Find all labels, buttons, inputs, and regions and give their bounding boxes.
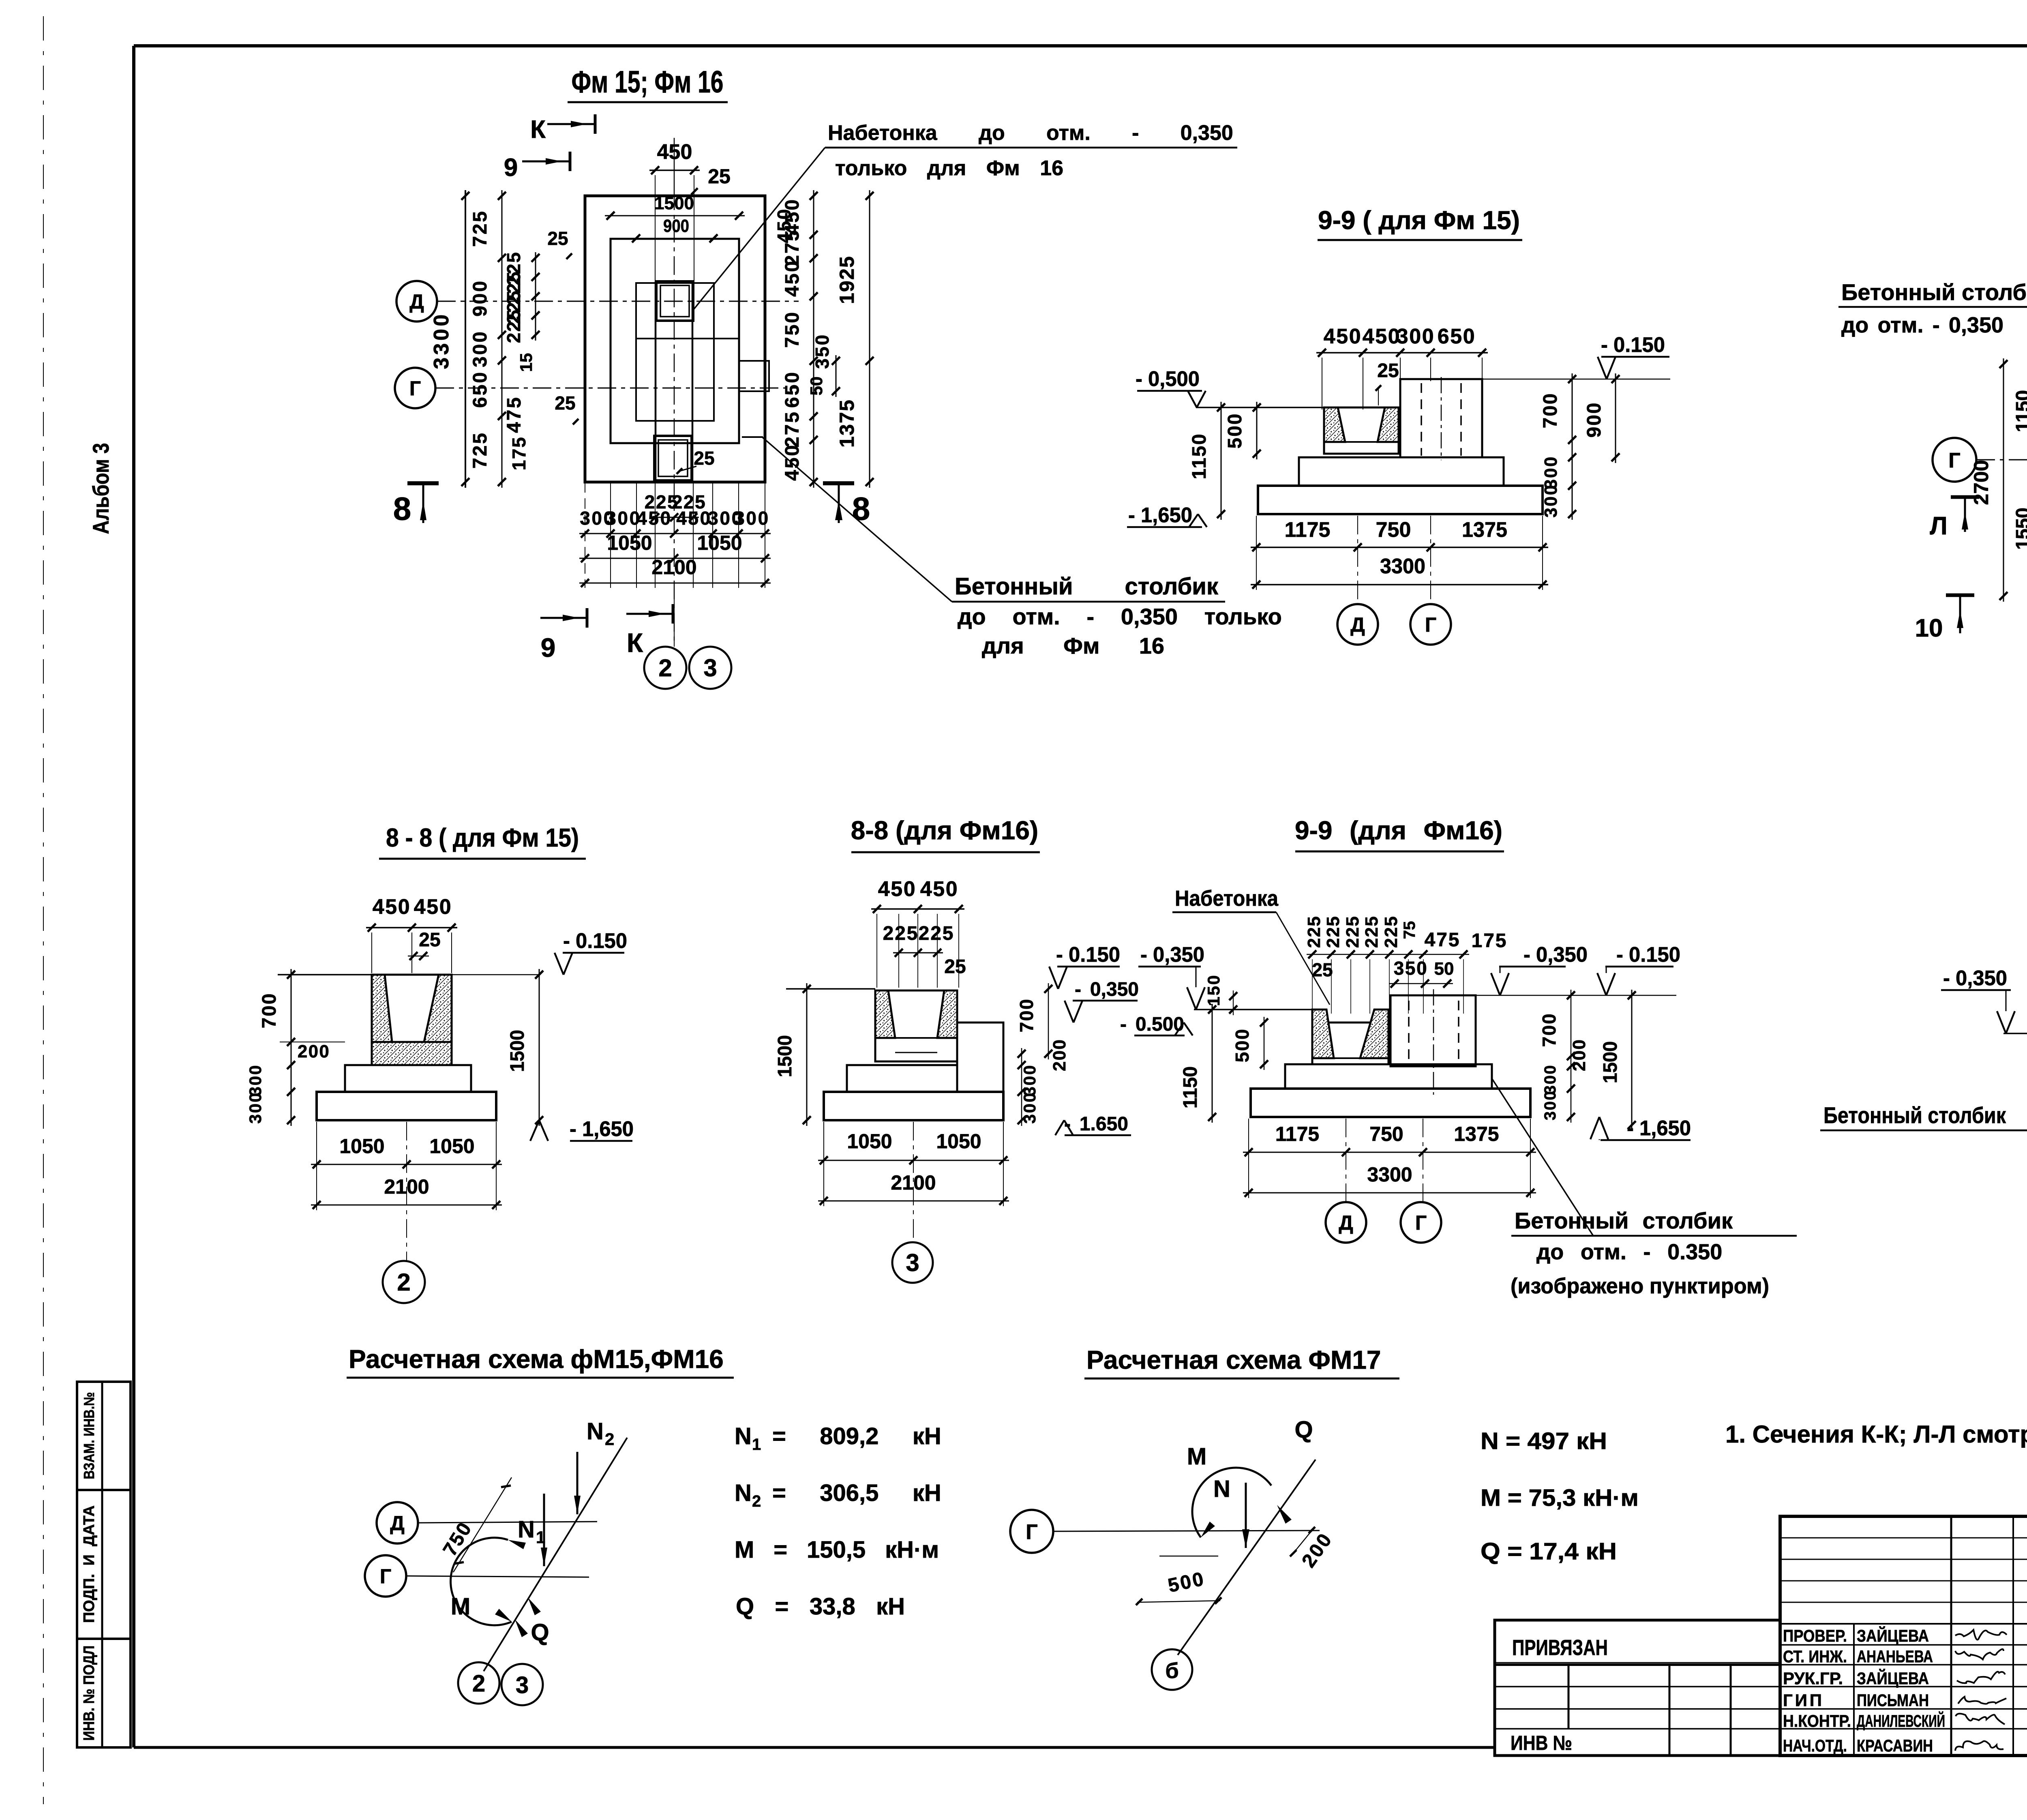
svg-text:- 1.650: - 1.650 bbox=[1064, 1113, 1128, 1135]
svg-text:450: 450 bbox=[1363, 325, 1401, 348]
svg-text:450: 450 bbox=[636, 508, 672, 529]
svg-text:Расчетная схема фМ15,ФМ16: Расчетная схема фМ15,ФМ16 bbox=[349, 1344, 724, 1374]
svg-text:2700: 2700 bbox=[1970, 460, 1993, 505]
svg-text:1. Сечения К-К; Л-Л смотри: 1. Сечения К-К; Л-Л смотри bbox=[1725, 1421, 2027, 1448]
svg-text:- 0.500: - 0.500 bbox=[1120, 1014, 1184, 1035]
svg-text:15: 15 bbox=[516, 353, 536, 372]
svg-text:1500: 1500 bbox=[507, 1030, 528, 1072]
svg-text:ДАНИЛЕВСКИЙ: ДАНИЛЕВСКИЙ bbox=[1857, 1711, 1945, 1730]
svg-text:Г: Г bbox=[1415, 1211, 1427, 1234]
svg-text:700: 700 bbox=[1540, 392, 1561, 429]
svg-text:725: 725 bbox=[469, 431, 491, 469]
svg-text:25: 25 bbox=[1312, 959, 1333, 980]
svg-text:225: 225 bbox=[1381, 915, 1401, 948]
svg-text:225: 225 bbox=[503, 309, 524, 343]
svg-text:225: 225 bbox=[1362, 915, 1382, 948]
svg-text:- 1,650: - 1,650 bbox=[570, 1117, 634, 1141]
svg-text:НАЧ.ОТД.: НАЧ.ОТД. bbox=[1783, 1736, 1847, 1755]
svg-text:- 0.150: - 0.150 bbox=[1616, 943, 1680, 967]
svg-text:300: 300 bbox=[1020, 1064, 1039, 1096]
svg-text:3300: 3300 bbox=[1367, 1163, 1412, 1186]
svg-text:1550: 1550 bbox=[2012, 508, 2027, 550]
svg-text:450: 450 bbox=[782, 259, 803, 297]
svg-text:225: 225 bbox=[1323, 915, 1343, 948]
svg-text:до отм. - 0,350: до отм. - 0,350 bbox=[1841, 313, 2003, 337]
svg-text:N: N bbox=[735, 1423, 752, 1449]
svg-text:1150: 1150 bbox=[1189, 433, 1210, 480]
svg-text:450: 450 bbox=[920, 877, 959, 901]
svg-text:1375: 1375 bbox=[1462, 518, 1507, 542]
svg-text:- 0,500: - 0,500 bbox=[1136, 367, 1200, 391]
svg-text:1050: 1050 bbox=[607, 532, 652, 554]
svg-text:ГИП: ГИП bbox=[1783, 1691, 1824, 1710]
svg-text:25: 25 bbox=[555, 392, 575, 414]
svg-text:АНАНЬЕВА: АНАНЬЕВА bbox=[1857, 1647, 1933, 1666]
svg-text:25: 25 bbox=[944, 956, 966, 978]
svg-text:Q = 17,4 кН: Q = 17,4 кН bbox=[1481, 1538, 1617, 1565]
svg-text:Альбом 3: Альбом 3 bbox=[88, 443, 114, 534]
svg-text:К: К bbox=[530, 116, 546, 144]
svg-text:175: 175 bbox=[1472, 930, 1508, 952]
svg-text:ЗАЙЦЕВА: ЗАЙЦЕВА bbox=[1857, 1626, 1929, 1645]
svg-text:750: 750 bbox=[782, 311, 803, 348]
svg-text:- 1,650: - 1,650 bbox=[1627, 1117, 1691, 1140]
svg-text:Д: Д bbox=[1350, 613, 1365, 636]
svg-text:M = 75,3 кН·м: M = 75,3 кН·м bbox=[1481, 1485, 1639, 1511]
svg-text:450: 450 bbox=[676, 508, 712, 529]
svg-text:25: 25 bbox=[419, 929, 440, 951]
svg-text:РУК.ГР.: РУК.ГР. bbox=[1783, 1669, 1843, 1688]
svg-text:КРАСАВИН: КРАСАВИН bbox=[1857, 1736, 1933, 1755]
svg-text:1: 1 bbox=[752, 1436, 761, 1453]
svg-text:для Фм 16: для Фм 16 bbox=[982, 633, 1164, 658]
svg-text:ПОДП. И ДАТА: ПОДП. И ДАТА bbox=[81, 1505, 98, 1623]
svg-text:Бетонный столбик: Бетонный столбик bbox=[1515, 1208, 1733, 1233]
svg-text:Г: Г bbox=[380, 1565, 391, 1588]
svg-text:ПРИВЯЗАН: ПРИВЯЗАН bbox=[1512, 1636, 1608, 1660]
svg-text:700: 700 bbox=[1016, 998, 1037, 1033]
svg-text:10: 10 bbox=[1915, 614, 1943, 642]
svg-text:9-9 (для Фм16): 9-9 (для Фм16) bbox=[1295, 816, 1502, 845]
svg-text:25: 25 bbox=[1377, 360, 1399, 382]
svg-text:175: 175 bbox=[508, 436, 529, 471]
svg-text:475: 475 bbox=[504, 396, 525, 433]
svg-text:1050: 1050 bbox=[936, 1130, 981, 1153]
svg-text:- 0,350: - 0,350 bbox=[1140, 943, 1204, 967]
svg-text:300: 300 bbox=[246, 1091, 265, 1123]
svg-text:450: 450 bbox=[373, 895, 411, 919]
svg-text:- 0,350: - 0,350 bbox=[1523, 943, 1588, 967]
svg-text:25: 25 bbox=[694, 448, 714, 469]
svg-text:Q: Q bbox=[1294, 1417, 1313, 1443]
svg-text:Д: Д bbox=[390, 1512, 405, 1535]
svg-text:1050: 1050 bbox=[429, 1135, 474, 1158]
svg-text:ИНВ. № ПОДЛ: ИНВ. № ПОДЛ bbox=[81, 1646, 98, 1741]
svg-text:N: N bbox=[735, 1480, 752, 1506]
svg-text:N: N bbox=[518, 1516, 535, 1543]
svg-text:700: 700 bbox=[1538, 1013, 1560, 1047]
svg-text:75: 75 bbox=[1401, 921, 1418, 939]
svg-text:900: 900 bbox=[469, 279, 491, 317]
svg-text:8: 8 bbox=[393, 491, 411, 527]
svg-text:1050: 1050 bbox=[847, 1130, 892, 1153]
svg-text:300: 300 bbox=[1541, 484, 1561, 517]
svg-text:150: 150 bbox=[1204, 974, 1223, 1006]
svg-text:- 0,350: - 0,350 bbox=[1943, 967, 2007, 990]
svg-text:- 0.150: - 0.150 bbox=[563, 929, 627, 953]
svg-text:Бетонный столбик: Бетонный столбик bbox=[1841, 279, 2027, 305]
svg-text:Л: Л bbox=[1930, 512, 1948, 540]
svg-text:1500: 1500 bbox=[774, 1035, 796, 1077]
svg-text:9: 9 bbox=[541, 632, 556, 662]
svg-text:ВЗАМ. ИНВ.№: ВЗАМ. ИНВ.№ bbox=[81, 1392, 97, 1479]
svg-text:N: N bbox=[1213, 1476, 1230, 1502]
svg-text:200: 200 bbox=[298, 1042, 330, 1061]
svg-text:750: 750 bbox=[1376, 518, 1411, 542]
svg-text:8: 8 bbox=[852, 491, 870, 527]
svg-text:275: 275 bbox=[782, 410, 803, 448]
svg-text:25: 25 bbox=[708, 165, 731, 188]
svg-text:ПИСЬМАН: ПИСЬМАН bbox=[1857, 1691, 1929, 1710]
svg-text:- 0.150: - 0.150 bbox=[1601, 333, 1665, 357]
svg-text:ПРОВЕР.: ПРОВЕР. bbox=[1783, 1626, 1847, 1645]
svg-text:б: б bbox=[1165, 1659, 1178, 1683]
svg-text:1150: 1150 bbox=[2012, 390, 2027, 432]
svg-text:9: 9 bbox=[504, 154, 518, 182]
svg-text:Набетонка: Набетонка bbox=[1175, 886, 1279, 911]
svg-text:300: 300 bbox=[1020, 1091, 1039, 1123]
svg-text:3: 3 bbox=[703, 654, 717, 682]
svg-text:N: N bbox=[587, 1418, 604, 1445]
svg-text:1925: 1925 bbox=[836, 255, 858, 304]
svg-text:2: 2 bbox=[605, 1430, 614, 1449]
svg-text:300: 300 bbox=[734, 508, 770, 529]
svg-text:- 0,350: - 0,350 bbox=[1075, 979, 1139, 1000]
svg-text:3300: 3300 bbox=[1380, 555, 1425, 578]
svg-text:Расчетная схема ФМ17: Расчетная схема ФМ17 bbox=[1086, 1345, 1381, 1374]
svg-text:3300: 3300 bbox=[430, 312, 453, 369]
svg-text:900: 900 bbox=[1583, 402, 1605, 438]
svg-text:= 809,2 кН: = 809,2 кН bbox=[772, 1423, 941, 1449]
svg-text:200: 200 bbox=[1050, 1039, 1069, 1071]
svg-text:Д: Д bbox=[1339, 1211, 1353, 1234]
svg-text:N = 497 кН: N = 497 кН bbox=[1481, 1428, 1607, 1454]
svg-text:M = 150,5 кН·м: M = 150,5 кН·м bbox=[735, 1537, 939, 1563]
svg-text:1150: 1150 bbox=[1180, 1066, 1201, 1108]
svg-text:Набетонка до отм. - 0,350: Набетонка до отм. - 0,350 bbox=[828, 121, 1233, 145]
svg-text:2: 2 bbox=[472, 1670, 485, 1697]
svg-text:ЗАЙЦЕВА: ЗАЙЦЕВА bbox=[1857, 1668, 1929, 1688]
svg-text:450: 450 bbox=[414, 895, 452, 919]
svg-text:(изображено пунктиром): (изображено пунктиром) bbox=[1511, 1274, 1769, 1298]
svg-text:до отм. - 0.350: до отм. - 0.350 bbox=[1536, 1240, 1722, 1264]
svg-text:9-9 ( для Фм 15): 9-9 ( для Фм 15) bbox=[1318, 206, 1520, 235]
svg-text:1375: 1375 bbox=[1454, 1123, 1499, 1145]
svg-text:1500: 1500 bbox=[1600, 1041, 1621, 1083]
svg-text:- 1,650: - 1,650 bbox=[1128, 504, 1192, 527]
svg-text:350: 350 bbox=[812, 333, 833, 369]
svg-text:Бетонный столбик: Бетонный столбик bbox=[1823, 1102, 2006, 1128]
svg-text:200: 200 bbox=[1569, 1039, 1589, 1071]
svg-text:25: 25 bbox=[547, 228, 568, 249]
svg-text:650: 650 bbox=[782, 371, 803, 408]
svg-text:475: 475 bbox=[1425, 929, 1461, 951]
svg-text:8 - 8 ( для Фм 15): 8 - 8 ( для Фм 15) bbox=[386, 823, 579, 852]
svg-text:2: 2 bbox=[752, 1492, 761, 1510]
svg-text:450: 450 bbox=[782, 444, 803, 481]
svg-text:50: 50 bbox=[1434, 959, 1454, 979]
svg-text:500: 500 bbox=[1224, 413, 1246, 449]
svg-text:225: 225 bbox=[1304, 915, 1324, 948]
svg-text:300: 300 bbox=[1397, 325, 1435, 348]
svg-text:225: 225 bbox=[1343, 915, 1363, 948]
svg-text:450: 450 bbox=[1324, 325, 1362, 348]
svg-text:только для Фм 16: только для Фм 16 bbox=[835, 156, 1063, 180]
svg-text:до отм. - 0,350 только: до отм. - 0,350 только bbox=[958, 604, 1282, 629]
svg-text:= 306,5 кН: = 306,5 кН bbox=[772, 1480, 941, 1506]
svg-text:3: 3 bbox=[906, 1249, 919, 1276]
svg-text:СТ. ИНЖ.: СТ. ИНЖ. bbox=[1783, 1647, 1847, 1666]
svg-text:- 0.150: - 0.150 bbox=[1056, 943, 1120, 967]
svg-text:750: 750 bbox=[1369, 1123, 1403, 1145]
svg-text:Г: Г bbox=[1948, 449, 1960, 472]
svg-text:225: 225 bbox=[919, 923, 955, 944]
svg-text:Г: Г bbox=[409, 377, 421, 400]
svg-text:2: 2 bbox=[658, 654, 672, 682]
svg-text:Н.КОНТР.: Н.КОНТР. bbox=[1783, 1711, 1851, 1730]
svg-text:300: 300 bbox=[469, 330, 491, 367]
svg-text:300: 300 bbox=[246, 1064, 265, 1096]
svg-text:1175: 1175 bbox=[1285, 518, 1331, 542]
svg-text:8-8 (для Фм16): 8-8 (для Фм16) bbox=[851, 816, 1038, 845]
svg-text:1375: 1375 bbox=[836, 399, 858, 448]
svg-text:650: 650 bbox=[469, 371, 491, 408]
svg-text:1175: 1175 bbox=[1275, 1123, 1319, 1145]
svg-text:300: 300 bbox=[1541, 1090, 1559, 1121]
svg-text:50: 50 bbox=[807, 377, 826, 396]
svg-text:2100: 2100 bbox=[651, 556, 696, 579]
svg-text:3: 3 bbox=[516, 1672, 529, 1698]
svg-text:700: 700 bbox=[259, 993, 280, 1029]
svg-text:M: M bbox=[1187, 1443, 1206, 1470]
svg-text:К: К bbox=[627, 628, 643, 658]
svg-text:Бетонный столбик: Бетонный столбик bbox=[955, 573, 1219, 600]
svg-text:450: 450 bbox=[878, 877, 917, 901]
svg-text:900: 900 bbox=[663, 216, 689, 236]
svg-text:725: 725 bbox=[469, 210, 491, 247]
svg-text:2: 2 bbox=[397, 1269, 410, 1296]
svg-text:Г: Г bbox=[1425, 613, 1436, 636]
svg-text:Фм 15; Фм 16: Фм 15; Фм 16 bbox=[572, 65, 724, 99]
svg-text:Г: Г bbox=[1026, 1520, 1037, 1544]
svg-text:225: 225 bbox=[883, 923, 919, 944]
svg-text:1050: 1050 bbox=[697, 532, 742, 554]
svg-text:1050: 1050 bbox=[339, 1135, 384, 1158]
svg-text:300: 300 bbox=[606, 508, 641, 529]
svg-text:ИНВ №: ИНВ № bbox=[1511, 1732, 1572, 1754]
svg-text:650: 650 bbox=[1438, 325, 1476, 348]
svg-text:300: 300 bbox=[1541, 1064, 1559, 1095]
svg-text:Д: Д bbox=[409, 290, 424, 313]
svg-text:500: 500 bbox=[1232, 1028, 1253, 1063]
svg-text:Q = 33,8 кН: Q = 33,8 кН bbox=[736, 1593, 905, 1620]
svg-text:Q: Q bbox=[531, 1619, 549, 1646]
svg-text:350: 350 bbox=[1394, 958, 1428, 979]
